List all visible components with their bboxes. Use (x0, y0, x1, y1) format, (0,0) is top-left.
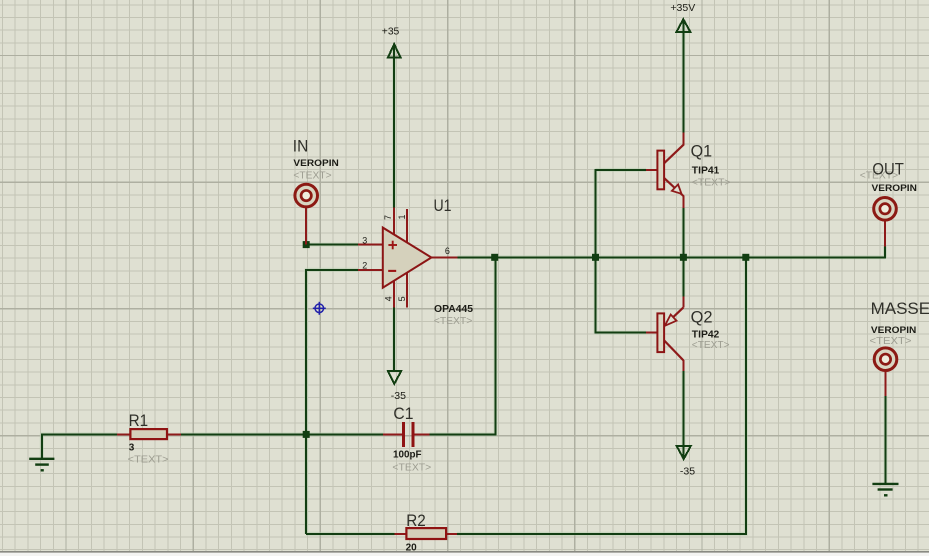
R2 right stub (446, 533, 457, 535)
wire R1 right to junction (181, 433, 307, 435)
wire MASSE drop to ground (885, 396, 887, 484)
R2 body (406, 528, 446, 539)
svg-text:C1: C1 (393, 404, 413, 423)
svg-text:-35: -35 (391, 391, 407, 402)
power +35 arrow above op-amp (388, 44, 401, 57)
svg-text:OPA445: OPA445 (434, 304, 473, 315)
wire rail to Q2 emitter (682, 257, 684, 296)
Q2 collector stub (682, 360, 684, 371)
terminal OUT circles (874, 198, 897, 221)
bottom window edge (0, 551, 929, 552)
svg-text:U1: U1 (434, 196, 452, 215)
wire +35 to op-amp pin7 (393, 45, 395, 208)
svg-text:<TEXT>: <TEXT> (128, 453, 169, 465)
pin 4 (393, 280, 395, 308)
C1 left stub (383, 433, 402, 435)
svg-text:3: 3 (362, 236, 367, 246)
svg-text:<TEXT>: <TEXT> (392, 462, 431, 474)
svg-text:VEROPIN: VEROPIN (872, 183, 917, 193)
wire OUT terminal drop (884, 246, 886, 258)
C1 right stub (415, 433, 430, 435)
Q2 collector diagonal (664, 340, 684, 361)
svg-text:<TEXT>: <TEXT> (293, 170, 331, 182)
pin 6 (431, 256, 457, 258)
svg-text:+35: +35 (382, 26, 400, 37)
terminal OUT pin (884, 221, 886, 246)
svg-text:<TEXT>: <TEXT> (692, 176, 731, 188)
wire junction to C1 (305, 433, 383, 435)
svg-text:5: 5 (397, 296, 407, 301)
Q1 base stub (646, 169, 657, 171)
svg-text:-35: -35 (680, 466, 696, 477)
C1 right plate (411, 422, 414, 447)
terminal IN pin (305, 208, 307, 245)
svg-text:TIP41: TIP41 (692, 166, 720, 177)
svg-text:Q2: Q2 (691, 307, 713, 326)
pin 1 (406, 209, 408, 244)
R1 body (130, 429, 167, 439)
junction node rail/C1 feedback (491, 254, 498, 261)
svg-text:<TEXT>: <TEXT> (870, 335, 912, 347)
svg-text:3: 3 (129, 442, 135, 453)
Q2 emitter stub (682, 296, 684, 307)
svg-text:<TEXT>: <TEXT> (692, 339, 730, 351)
wire pin2 horizontal (305, 269, 358, 271)
C1 left plate (402, 422, 405, 447)
wire Q1 base horizontal (596, 169, 647, 171)
svg-text:OUT: OUT (872, 160, 904, 179)
wire op-amp pin4 to -35 arrow (393, 308, 395, 372)
junction node at IN wire (303, 241, 310, 248)
Q1 emitter diagonal (664, 177, 684, 196)
junction node rail/emitters (680, 254, 687, 261)
Q1 collector diagonal (664, 145, 684, 164)
svg-text:R1: R1 (129, 411, 149, 430)
pin 2 (358, 269, 383, 271)
wire ground to R1 (41, 433, 117, 435)
junction node rail/R2 vertical (742, 254, 749, 261)
svg-text:7: 7 (383, 215, 393, 220)
wire feedback vertical from pin2 down to R2 line (305, 269, 307, 534)
wire ground drop (41, 433, 43, 458)
pin 5 (406, 272, 408, 308)
Q1 base bar (657, 151, 664, 190)
svg-text:1: 1 (397, 214, 407, 219)
power -35 arrow below Q2 (677, 446, 691, 459)
pin 3 (358, 244, 383, 246)
R2 left stub (395, 533, 407, 535)
wire output rail (458, 256, 886, 258)
svg-text:6: 6 (445, 246, 450, 256)
svg-text:VEROPIN: VEROPIN (871, 325, 916, 335)
R1 left stub (117, 433, 130, 435)
svg-text:Q1: Q1 (691, 142, 713, 161)
terminal MASSE pin (885, 372, 887, 396)
wire Q2 collector to -35 (682, 371, 684, 458)
pin 7 (393, 208, 395, 238)
Q1 emitter arrow (672, 184, 682, 193)
Q2 emitter arrow (665, 315, 677, 326)
Q1 emitter stub (682, 196, 684, 209)
wire +35V drop to Q1 collector (682, 20, 684, 133)
Q1 collector stub (682, 133, 684, 146)
power +35V arrow top right (677, 19, 691, 32)
svg-text:<TEXT>: <TEXT> (434, 315, 473, 327)
wire Q1 emitter to rail (682, 208, 684, 257)
ground at MASSE (872, 484, 898, 495)
origin marker (blue) (313, 302, 326, 315)
svg-text:2: 2 (362, 260, 367, 270)
op-amp U1 triangle body (383, 228, 432, 288)
wire Q2 base horizontal (596, 332, 647, 334)
wire R2 left (306, 533, 394, 535)
junction node at R1/C1 (303, 431, 310, 438)
wire R2 vertical from rail (457, 257, 746, 534)
svg-text:100pF: 100pF (393, 449, 422, 460)
Q2 emitter diagonal (664, 307, 684, 326)
svg-text:+35V: +35V (670, 2, 695, 14)
svg-text:IN: IN (293, 137, 309, 156)
op-amp + symbol (388, 241, 397, 250)
svg-text:MASSE: MASSE (871, 299, 929, 318)
terminal MASSE circles (874, 348, 897, 371)
terminal IN circles (295, 184, 318, 207)
svg-text:4: 4 (384, 296, 394, 301)
wire IN junction to pin3 (305, 244, 358, 246)
R1 right stub (167, 433, 181, 435)
junction node rail/bases (592, 254, 599, 261)
power -35 arrow below op-amp (388, 371, 401, 384)
svg-text:R2: R2 (406, 511, 426, 530)
Q2 base bar (657, 313, 664, 352)
Q2 base stub (646, 332, 657, 334)
wire C1 right to corner up (430, 257, 496, 434)
svg-text:VEROPIN: VEROPIN (293, 158, 338, 168)
wire bases vertical (595, 169, 597, 334)
ground at R1 (29, 459, 54, 471)
op-amp - symbol (388, 270, 396, 272)
